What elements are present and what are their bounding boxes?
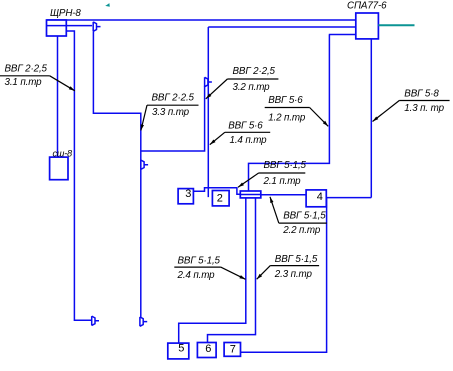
svg-text:ВВГ 5·1,5: ВВГ 5·1,5	[178, 255, 221, 266]
svg-text:ВВГ 2·2.5: ВВГ 2·2.5	[152, 93, 195, 104]
svg-text:1.2 п.тр: 1.2 п.тр	[268, 112, 306, 123]
svg-text:4: 4	[317, 191, 323, 203]
svg-text:ВВГ 5·1,5: ВВГ 5·1,5	[275, 254, 318, 265]
svg-text:3: 3	[185, 188, 191, 200]
svg-text:3.2 п.тр: 3.2 п.тр	[233, 82, 271, 93]
svg-text:1.4 п.тр: 1.4 п.тр	[230, 135, 268, 146]
svg-text:ВВГ 2·2,5: ВВГ 2·2,5	[233, 66, 276, 77]
svg-text:2: 2	[217, 193, 223, 205]
svg-text:ВВГ 5·1,5: ВВГ 5·1,5	[264, 160, 307, 171]
svg-text:ВВГ 5·6: ВВГ 5·6	[268, 95, 303, 106]
svg-text:6: 6	[205, 343, 211, 355]
svg-text:2.1 п.тр: 2.1 п.тр	[263, 176, 302, 187]
svg-text:ВВГ 2·2,5: ВВГ 2·2,5	[5, 63, 48, 74]
svg-text:СПА77-6: СПА77-6	[347, 1, 387, 12]
svg-text:сш-8: сш-8	[53, 148, 73, 158]
svg-text:2.4 п.тр: 2.4 п.тр	[177, 270, 216, 281]
svg-text:7: 7	[230, 343, 236, 355]
svg-text:ВВГ 5·1,5: ВВГ 5·1,5	[283, 211, 326, 222]
svg-text:3.1 п.тр: 3.1 п.тр	[5, 77, 43, 88]
svg-text:ЩРН-8: ЩРН-8	[50, 8, 81, 19]
svg-text:1.3 п. тр: 1.3 п. тр	[404, 103, 444, 114]
svg-text:2.3 п.тр: 2.3 п.тр	[274, 269, 313, 280]
svg-text:ВВГ 5·8: ВВГ 5·8	[404, 89, 439, 100]
svg-text:5: 5	[178, 343, 184, 355]
svg-text:3.3 п.тр: 3.3 п.тр	[152, 107, 190, 118]
svg-text:ВВГ 5·6: ВВГ 5·6	[228, 120, 263, 131]
svg-text:2.2 п.тр: 2.2 п.тр	[282, 225, 321, 236]
